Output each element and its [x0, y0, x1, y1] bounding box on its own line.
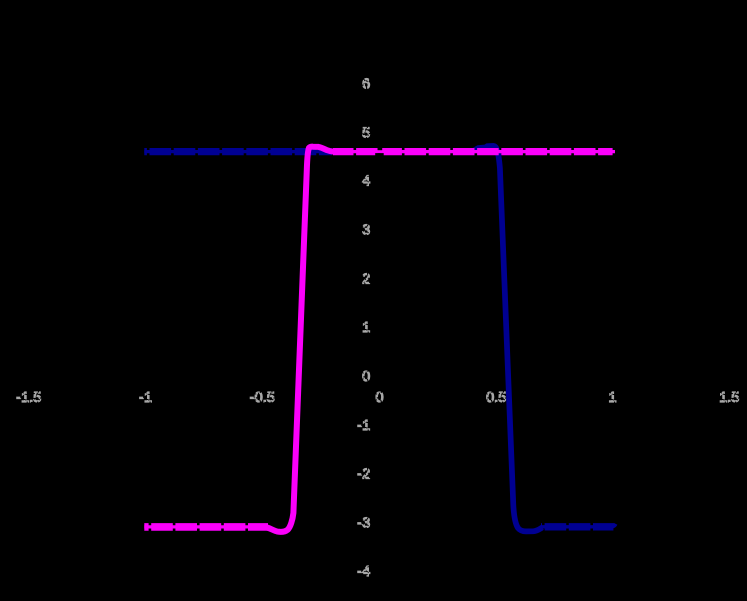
blue curve: right end uptick at x=1 [612, 524, 616, 527]
irregular wide dash notch on magenta high segment near x=0 [378, 148, 383, 151]
svg-text:-2: -2 [357, 467, 370, 483]
svg-text:1: 1 [609, 390, 617, 406]
blue curve: falling transition near x=0.55 (pre-fall bump, steep fall, undershoot) [471, 146, 543, 532]
svg-text:1.5: 1.5 [719, 390, 739, 406]
svg-text:6: 6 [362, 77, 370, 93]
magenta curve: high segment (dashed with solid core), y~4.6 to x=1 [333, 150, 615, 153]
blue curve: high segment (dashed with solid core), y~4.6 from x=-1 to x~-0.2 [144, 150, 332, 153]
svg-text:4: 4 [362, 174, 370, 190]
svg-text:1: 1 [362, 320, 370, 336]
blue curve: low segment (dashed with solid core), y~-3.1 to x=1 [541, 525, 613, 528]
svg-text:0: 0 [376, 390, 384, 406]
magenta curve: rising transition near x=-0.33 (pre-rise dip, steep rise, overshoot) [266, 147, 335, 532]
svg-text:-1.5: -1.5 [16, 390, 41, 406]
svg-text:0.5: 0.5 [486, 390, 506, 406]
svg-text:5: 5 [362, 125, 370, 141]
svg-text:2: 2 [362, 271, 370, 287]
svg-text:-4: -4 [357, 564, 370, 580]
svg-text:0: 0 [362, 369, 370, 385]
svg-text:-1: -1 [357, 418, 370, 434]
svg-text:-3: -3 [357, 515, 370, 531]
svg-text:3: 3 [362, 223, 370, 239]
svg-text:-0.5: -0.5 [250, 390, 275, 406]
magenta curve: low segment (dashed with solid core), y~-3.1 from x=-1 to x~-0.47 [144, 525, 268, 528]
svg-text:-1: -1 [139, 390, 152, 406]
